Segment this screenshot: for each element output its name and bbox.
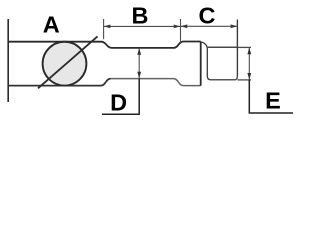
bottom edge extension to E dimension — [238, 79, 251, 81]
svg-text:D: D — [110, 89, 127, 115]
cylinder top edge — [208, 46, 238, 48]
C dimension line — [181, 25, 238, 27]
svg-text:B: B — [132, 2, 149, 28]
neck top edge with fillet up to flange — [112, 42, 201, 48]
B extension line left — [103, 19, 105, 39]
C arrow left — [181, 24, 188, 28]
diagonal line through circle — [38, 36, 98, 88]
cylinder end face with C extension above and corner fillet into bottom extension — [236, 20, 238, 77]
bar top edge with fillet to neck — [8, 42, 111, 48]
D arrow up — [137, 48, 141, 55]
shared extension line between B and C — [180, 19, 182, 44]
svg-text:E: E — [265, 88, 281, 114]
B arrow left — [104, 25, 111, 29]
E arrow down — [247, 73, 251, 80]
top edge extension to E dimension — [237, 46, 251, 48]
shoulder contour from flange rim into cylinder — [201, 42, 211, 80]
B arrow right — [174, 25, 181, 29]
flange right face — [200, 42, 202, 86]
D dimension line with leader down to label underline — [138, 48, 140, 79]
bar bottom edge with fillet to neck — [8, 79, 110, 86]
cylinder bottom edge — [211, 77, 238, 80]
svg-text:C: C — [199, 3, 216, 29]
C arrow right — [231, 24, 238, 28]
B dimension line — [104, 25, 181, 27]
neck bottom edge with fillet down to flange — [111, 79, 201, 86]
E dimension line with leader down to label underline — [248, 48, 250, 80]
left end face — [7, 19, 9, 102]
D arrow down — [137, 72, 141, 79]
circle (section A) — [43, 42, 87, 86]
E arrow up — [247, 48, 251, 55]
svg-text:A: A — [43, 12, 60, 38]
